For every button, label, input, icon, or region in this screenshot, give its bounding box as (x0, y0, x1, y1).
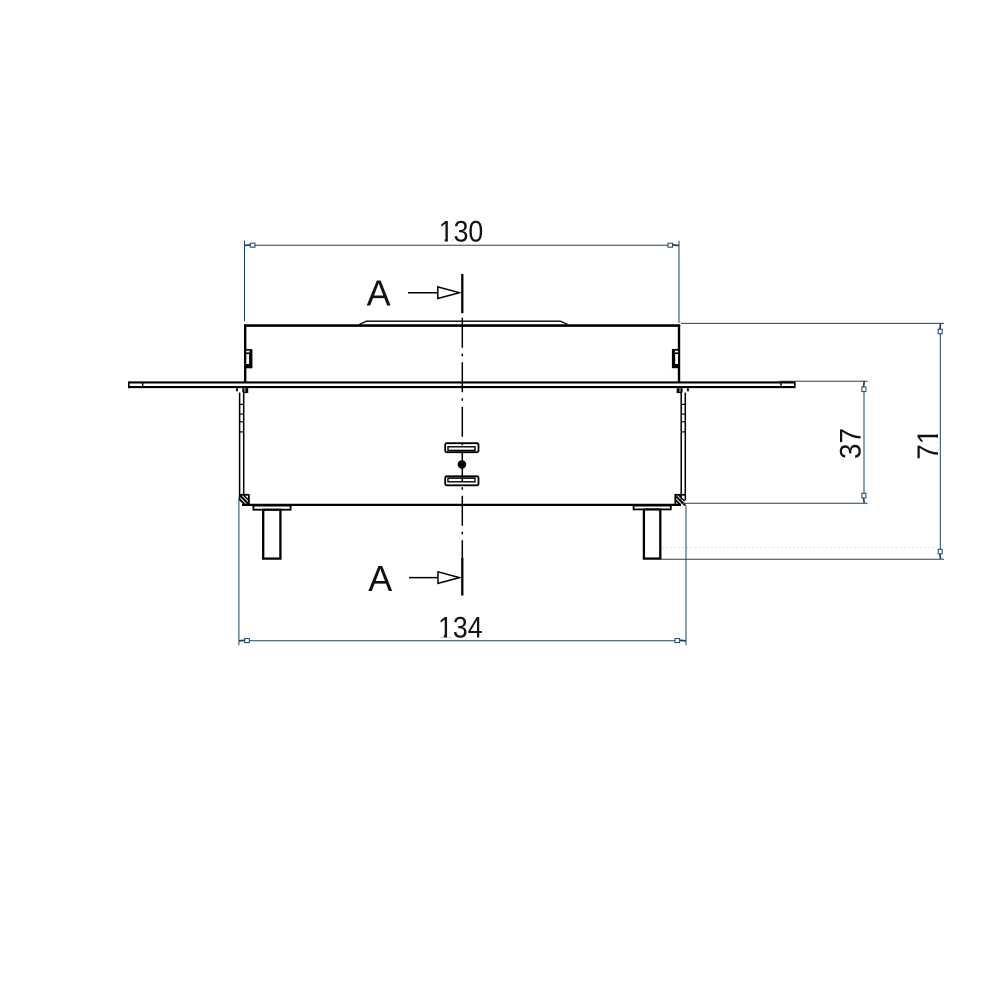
right foot column (644, 509, 660, 558)
section arrow bottom head (438, 572, 460, 584)
right hook below flange (677, 388, 688, 392)
left foot column (263, 510, 280, 559)
flange right end cap (794, 381, 796, 388)
left lower wall outer line (239, 393, 241, 501)
center latch upper bar (445, 443, 478, 452)
ext line 130 right (678, 241, 680, 323)
faint dotted line (662, 547, 936, 549)
ext line 134 right (685, 505, 687, 645)
dim 71 top terminator (938, 329, 942, 334)
center latch lower bar (445, 476, 478, 485)
svg-text:37: 37 (835, 428, 868, 459)
upper body right wall (678, 324, 680, 381)
dim 71 bottom terminator (938, 549, 942, 554)
flange left divider (142, 382, 144, 388)
dim 134 right terminator (675, 639, 680, 643)
section arrow top head (438, 287, 460, 299)
left lower wall inner line (243, 393, 245, 495)
dim 130 right terminator (668, 243, 673, 247)
dim 37 top terminator (862, 387, 866, 392)
flange top line (129, 381, 795, 383)
left clip on upper wall (246, 349, 253, 368)
section arrow top shaft (408, 292, 439, 294)
right foot base plate (634, 506, 671, 510)
svg-text:A: A (367, 272, 391, 313)
dim 130 line (245, 244, 680, 246)
right lower wall outer line (684, 393, 686, 501)
body bottom edge (242, 504, 681, 506)
flange bottom line (129, 386, 795, 388)
dim 71 line (939, 323, 941, 559)
svg-text:A: A (368, 558, 392, 599)
ext line 134 left (238, 497, 240, 645)
svg-text:130: 130 (439, 216, 484, 249)
section arrow bottom shaft (409, 577, 440, 579)
flange left end cap (128, 381, 130, 388)
dimensions in blue (239, 241, 944, 645)
svg-text:71: 71 (912, 429, 945, 460)
dim 37 line (863, 381, 865, 503)
left hook below flange (237, 388, 248, 392)
left bottom corner (240, 494, 250, 504)
upper body top edge (244, 324, 680, 327)
right lower wall inner line (680, 393, 682, 500)
section line bottom thick end (461, 558, 463, 596)
ext line 37 bottom (681, 502, 868, 504)
dim 37 bottom terminator (862, 493, 866, 498)
right wall ticks (681, 404, 685, 432)
right bottom corner (675, 494, 686, 505)
ext line 71 top (681, 322, 944, 324)
upper body left wall (244, 324, 246, 381)
right clip on upper wall (672, 349, 679, 368)
ext line 71 bottom (662, 558, 945, 560)
section centerline dash-dot (461, 313, 463, 557)
dim 130 left terminator (250, 243, 255, 247)
svg-text:134: 134 (438, 611, 483, 644)
dim 134 left terminator (245, 639, 250, 643)
center latch dot (458, 460, 467, 469)
dim 134 line (239, 640, 686, 642)
ext line 37 top (779, 380, 867, 382)
flange right divider (780, 382, 782, 388)
left foot base plate (253, 506, 290, 510)
top lip (360, 321, 568, 324)
section line top thick end (461, 274, 463, 313)
ext line 130 left (244, 241, 246, 321)
left wall ticks (240, 404, 244, 432)
digit 1 foot trims (439, 239, 938, 637)
